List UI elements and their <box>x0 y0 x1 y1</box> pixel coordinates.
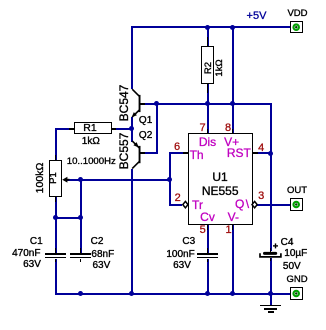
node emitters-R1 junction <box>129 126 134 131</box>
pin stub Q1 base <box>140 103 144 105</box>
C4 value 10uF <box>284 249 307 259</box>
pin stub C3 top <box>207 248 209 253</box>
C1 voltage 63V <box>23 260 41 270</box>
node Th-Tr junction <box>167 177 172 182</box>
node pin1-rail junction <box>230 291 235 296</box>
pin stub C1 top <box>55 248 57 253</box>
pin stub U1 pin 4 <box>253 152 258 154</box>
wire R2 bottom lead <box>207 84 209 105</box>
pin number 3 <box>258 191 264 201</box>
C1 value 470nF <box>12 249 40 259</box>
wire ground symbol stub <box>270 293 272 305</box>
wire R1 left lead <box>55 128 75 130</box>
wire V- pin 1 to ground rail <box>232 225 234 295</box>
pin stub C4 top <box>270 248 272 253</box>
pin stub C2 bottom <box>80 259 82 262</box>
C3 voltage 63V <box>173 261 191 271</box>
wire R2 top lead <box>207 26 209 46</box>
pin name Dis <box>199 137 216 147</box>
wire C1 bottom to ground rail <box>55 259 57 295</box>
pin stub U1 pin 8 <box>232 129 234 134</box>
wire P1 bottom to C1 top <box>55 197 57 253</box>
wire base bus horizontal (Dis node) <box>140 103 272 105</box>
wire P1-C2 junction horizontal <box>55 217 82 219</box>
pin name V+ <box>224 137 239 147</box>
capacitor C2 <box>70 253 91 255</box>
U1 type NE555 <box>202 186 239 196</box>
capacitor C1 <box>45 253 66 255</box>
pin name Tr <box>192 200 203 210</box>
pin name Th <box>190 150 204 160</box>
pin number 5 <box>200 225 206 235</box>
node C3-rail junction <box>205 291 210 296</box>
node C2-rail junction <box>78 291 83 296</box>
pin name Cv <box>200 212 215 222</box>
wire Tr pin 2 lead <box>169 204 183 206</box>
frequency range label 10..1000Hz <box>67 157 116 167</box>
pin number 6 <box>174 142 180 152</box>
C2 value 68nF <box>91 250 114 260</box>
resistor R2 <box>201 46 214 84</box>
wire Q1 collector to +5V rail <box>131 26 133 89</box>
wire R1 left to P1 top <box>55 128 57 162</box>
R2 value 1k ohm <box>215 59 225 76</box>
wire R1 right lead <box>111 128 132 130</box>
node V+ bus junction <box>230 101 235 106</box>
wire Q1-Q2 bases junction vertical <box>156 103 158 155</box>
pin stub R2 bottom <box>207 84 209 93</box>
pin number 4 <box>258 143 264 153</box>
terminal VDD <box>290 21 303 34</box>
node rail-R2 junction <box>205 25 210 30</box>
node C2 top junction <box>78 215 83 220</box>
wire Q1-Q2 emitters vertical <box>131 117 133 142</box>
wire Q output pin 3 to OUT <box>257 204 289 206</box>
pin stub R1 right <box>111 128 116 130</box>
pin stub C4 bottom <box>270 258 272 262</box>
wire C2 column vertical <box>80 179 82 253</box>
timer IC U1 NE555 body <box>188 133 253 225</box>
node bases junction <box>154 101 159 106</box>
pin stub U1 pin 1 <box>232 225 234 230</box>
Q2 label <box>139 131 152 141</box>
R1 value 1k ohm <box>82 137 100 147</box>
wire C4 bottom to ground rail <box>270 258 272 295</box>
pin name Q\ <box>235 199 251 209</box>
pin stub U1 pin 5 <box>207 225 209 230</box>
C2 voltage 63V <box>92 261 110 271</box>
Q2 type BC557 <box>119 133 129 170</box>
pin number 7 <box>200 123 206 133</box>
terminal OUT <box>290 198 303 211</box>
Q1 label <box>139 116 152 126</box>
pin stub P1 top <box>55 155 57 160</box>
wire Th pin 6 lead <box>169 152 188 154</box>
Q1 type BC547 <box>119 85 129 122</box>
node wiper-C2 junction <box>78 177 83 182</box>
node R2-Dis junction <box>205 101 210 106</box>
pin name V- <box>228 212 239 222</box>
wire C3 bottom to ground rail <box>207 259 209 295</box>
wire Dis pin 7 drop <box>207 103 209 135</box>
pin number 1 <box>225 225 231 235</box>
pin stub R1 left <box>69 128 74 130</box>
terminal GND <box>290 287 303 300</box>
C3 value 100nF <box>166 250 194 260</box>
pin stub C1 bottom <box>55 259 57 262</box>
pin stub P1 bottom <box>55 197 57 202</box>
wire Q2 collector to ground rail <box>131 169 133 295</box>
pin stub Q2 base <box>140 152 144 154</box>
pin name RST <box>227 148 251 158</box>
C4 voltage 50V <box>283 262 301 272</box>
pin stub R2 top <box>207 37 209 46</box>
node Q2 collector-rail junction <box>129 291 134 296</box>
wire +5V rail to V+ pin 8 vertical <box>232 26 234 134</box>
ground symbol <box>260 305 281 307</box>
P1 value 100k ohm <box>35 163 45 194</box>
pin number 8 <box>225 123 231 133</box>
node P1-C1 junction <box>53 215 58 220</box>
wire RST drop vertical to C4 <box>270 103 272 252</box>
net label +5V <box>247 11 267 21</box>
wire +5V top rail <box>131 26 291 28</box>
wire P1 wiper horizontal <box>66 179 171 181</box>
pin number 2 <box>175 193 181 203</box>
node RST junction <box>268 151 273 156</box>
capacitor C3 <box>197 253 218 255</box>
pin stub U1 pin 6 <box>183 152 188 154</box>
wire bottom ground rail <box>55 293 290 295</box>
pin stub C3 bottom <box>207 259 209 262</box>
wire Cv pin 5 to C3 <box>207 225 209 253</box>
wire RST pin 4 lead <box>253 152 271 154</box>
U1 reference label <box>212 172 227 182</box>
node rail-V+ junction <box>230 25 235 30</box>
resistor R1 <box>74 122 112 134</box>
potentiometer P1 <box>49 160 62 197</box>
node C4-rail junction <box>268 291 273 296</box>
wire Q2 base lead <box>140 152 157 154</box>
pin stub U1 pin 7 <box>207 129 209 134</box>
pin stub C2 top <box>80 248 82 253</box>
wire Th-Tr vertical <box>169 152 171 205</box>
